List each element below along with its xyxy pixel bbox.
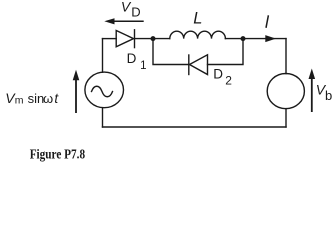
node A junction dot bbox=[151, 36, 156, 41]
wire node B to top-right corner bbox=[243, 38, 286, 40]
label I bbox=[266, 15, 268, 27]
svg-text:L: L bbox=[193, 10, 202, 28]
DC source V_b circle bbox=[267, 74, 304, 109]
svg-text:t: t bbox=[54, 91, 59, 106]
wire right vertical lower (Vb source to bottom) bbox=[285, 109, 287, 127]
label V_D bbox=[121, 0, 141, 19]
V_b source arrow (points up) bbox=[309, 69, 316, 113]
wire left vertical lower (AC source to bottom) bbox=[102, 108, 104, 127]
svg-text:ω: ω bbox=[43, 91, 53, 106]
svg-text:D: D bbox=[127, 51, 137, 66]
label V_m sin wt bbox=[5, 90, 59, 107]
AC source sine wave bbox=[92, 86, 113, 97]
wire D2 branch right (D2 anode right and up to node B) bbox=[208, 39, 244, 65]
label D1 bbox=[127, 51, 147, 72]
wire right vertical upper (corner to Vb source) bbox=[285, 39, 287, 74]
diode D2 cathode bar bbox=[188, 55, 190, 75]
wire bottom horizontal bbox=[103, 126, 287, 128]
node B junction dot bbox=[241, 36, 246, 41]
svg-text:2: 2 bbox=[225, 73, 232, 87]
AC source V_m circle bbox=[85, 72, 124, 108]
current arrow I head bbox=[265, 35, 276, 42]
diode D1 cathode bar bbox=[134, 30, 136, 48]
wire left vertical upper (top wire to AC source) bbox=[102, 39, 104, 73]
svg-text:D: D bbox=[213, 66, 223, 81]
V_D arrow (points left) bbox=[104, 18, 143, 24]
inductor L bbox=[170, 31, 226, 38]
svg-text:D: D bbox=[131, 4, 140, 19]
svg-text:Figure P7.8: Figure P7.8 bbox=[30, 146, 86, 161]
diode D1 triangle bbox=[116, 31, 133, 47]
wire D2 branch left (node A down and right to D2 cathode) bbox=[153, 39, 189, 65]
svg-text:sin: sin bbox=[28, 91, 45, 106]
wire inductor to node B bbox=[225, 38, 243, 40]
wire top-left horizontal (source top to D1 anode) bbox=[103, 38, 117, 40]
svg-text:m: m bbox=[15, 95, 24, 107]
diode D2 triangle bbox=[190, 55, 208, 75]
wire D1 cathode to node A and to inductor bbox=[135, 38, 170, 40]
label V_b bbox=[316, 81, 332, 103]
V_m source arrow (points up) bbox=[73, 70, 80, 113]
label D2 bbox=[213, 66, 232, 87]
svg-text:1: 1 bbox=[140, 60, 146, 72]
svg-text:b: b bbox=[325, 88, 332, 103]
